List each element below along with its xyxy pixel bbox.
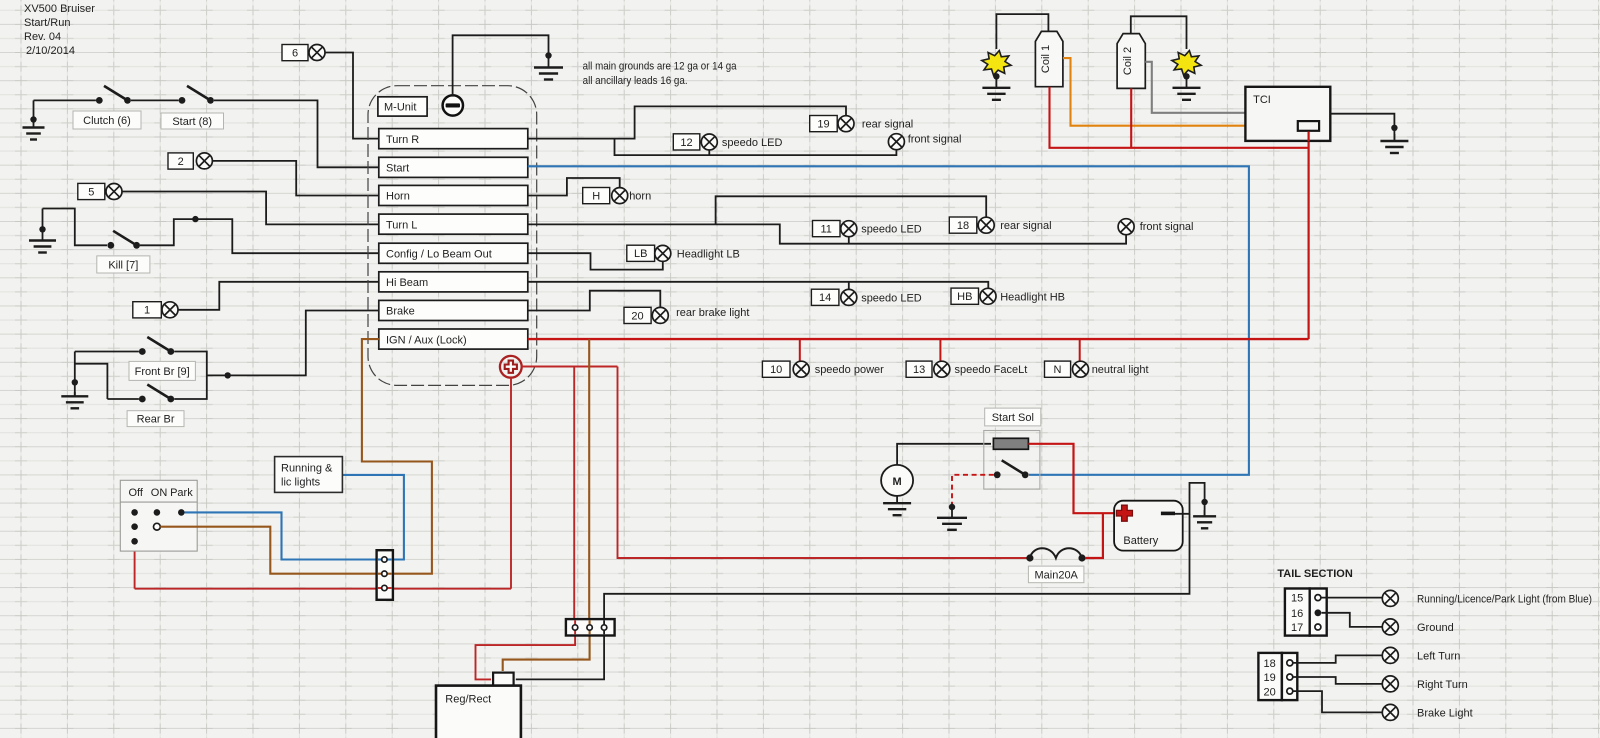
svg-text:speedo LED: speedo LED: [861, 292, 922, 304]
M-Unit row: Brake: [379, 300, 528, 320]
solenoid coil: [993, 438, 1028, 449]
svg-text:horn: horn: [629, 191, 651, 203]
lamp LB (headlight low beam): [655, 245, 671, 261]
lamp 20 (rear brake light): [652, 307, 668, 323]
TCI unit: [1245, 87, 1330, 142]
fuse Main20A: [1026, 548, 1085, 561]
lamp 19 (rear signal): [838, 116, 854, 132]
svg-text:rear brake light: rear brake light: [676, 307, 749, 319]
lamp H (horn): [612, 188, 628, 204]
ignition key switch box (Off / ON / Park): [120, 480, 197, 551]
wire (brown): power bus tap to connector J2 pin 2: [588, 339, 590, 619]
M-Unit header box: [378, 97, 427, 116]
junction: brake wire node: [225, 372, 231, 378]
svg-text:14: 14: [819, 292, 831, 304]
spark plug 2: [1172, 51, 1201, 76]
lamp HB (headlight high beam): [980, 288, 996, 304]
svg-text:all ancillary leads 16 ga.: all ancillary leads 16 ga.: [583, 75, 688, 87]
starter solenoid enclosure: [984, 431, 1040, 490]
ground G7 (battery): [1193, 510, 1216, 528]
svg-text:Start: Start: [386, 163, 409, 175]
svg-text:17: 17: [1291, 622, 1303, 634]
lamp: right turn: [1382, 676, 1398, 692]
ignition switch contact: [131, 538, 138, 545]
indicator lamp 2: [196, 153, 212, 169]
lamp N (neutral light): [1073, 361, 1089, 377]
junction: spark plug 1 ground node: [993, 73, 999, 79]
wire: pin 18 to left turn lamp: [1293, 655, 1382, 663]
indicator lamp 2 box: [168, 153, 193, 169]
wire: M-Unit minus to main ground: [453, 35, 549, 96]
indicator lamp 5: [106, 184, 122, 200]
M-Unit minus terminal: [443, 95, 463, 115]
svg-text:rear signal: rear signal: [862, 119, 913, 131]
lamp: left turn: [1382, 647, 1398, 663]
lamp: front signal (turn L): [1118, 219, 1134, 235]
switch: Kill [7]: [107, 231, 140, 249]
lamp 13 box (speedo FaceLt): [906, 361, 932, 377]
lamp 14 box (speedo LED): [811, 289, 839, 305]
wire (brown): connector J2 pin 2 to Reg/Rect terminal: [503, 636, 590, 672]
coil 1: [1035, 31, 1063, 86]
svg-text:TCI: TCI: [1253, 94, 1271, 106]
ground G8 (spark plug 1): [982, 76, 1010, 100]
svg-text:neutral light: neutral light: [1092, 364, 1149, 376]
indicator lamp 6: [309, 45, 325, 61]
svg-text:Brake: Brake: [386, 306, 415, 318]
wire: starter motor to solenoid coil: [897, 444, 991, 465]
wire: connector J2 pin 3 to Reg/Rect terminal: [516, 636, 604, 680]
wire: brake switches ground riser: [74, 352, 76, 397]
lamp 13 (speedo FaceLt): [934, 361, 950, 377]
svg-text:Brake Light: Brake Light: [1417, 707, 1473, 719]
lamp 18 (rear signal): [978, 217, 994, 233]
connector J1 pin 3: [382, 585, 387, 590]
connector J1 pin 2: [382, 571, 387, 576]
ignition switch contact: [131, 509, 138, 516]
wire: lamp 6 to M-Unit Turn R input: [325, 53, 379, 139]
svg-text:Running &: Running &: [281, 463, 333, 475]
ground G4 (main ground): [534, 63, 563, 80]
svg-text:TAIL SECTION: TAIL SECTION: [1277, 568, 1352, 580]
indicator lamp 5 box: [78, 183, 105, 199]
lamp 11 box (speedo LED): [813, 221, 841, 237]
svg-text:Config / Lo Beam Out: Config / Lo Beam Out: [386, 249, 492, 261]
wire (blue): Start output to starter solenoid switch: [528, 166, 1249, 475]
lamp 10 (speedo power): [793, 361, 809, 377]
svg-text:10: 10: [770, 364, 782, 376]
M-Unit row: Config / Lo Beam Out: [379, 243, 528, 263]
wire: lamp 2 to M-Unit Horn input: [213, 161, 379, 196]
starter motor M: [881, 465, 913, 496]
connector J2 pin 3: [601, 625, 606, 630]
svg-text:Right Turn: Right Turn: [1417, 679, 1468, 691]
wire: brake switches to M-Unit Brake input: [207, 311, 379, 376]
svg-text:Off: Off: [129, 487, 144, 499]
lamp N box (neutral light): [1045, 361, 1071, 377]
svg-text:19: 19: [1264, 672, 1276, 684]
label box: Kill [7]: [97, 256, 150, 273]
svg-text:20: 20: [1264, 686, 1276, 698]
label box: Start (8): [161, 113, 224, 129]
tail connector C2 (pins 18/19/20): [1258, 653, 1297, 700]
svg-text:Turn R: Turn R: [386, 134, 419, 146]
svg-text:Left Turn: Left Turn: [1417, 650, 1460, 662]
lamp 12 (speedo LED): [701, 134, 717, 150]
ignition switch contact: [131, 523, 138, 530]
wire (red): bus riser to TCI tab: [1307, 131, 1309, 339]
M-Unit plus terminal: [500, 356, 522, 378]
svg-text:Running/Licence/Park Light (fr: Running/Licence/Park Light (from Blue): [1417, 593, 1592, 605]
svg-text:1: 1: [144, 305, 150, 317]
wire: rear brake switch left lead: [107, 398, 138, 400]
svg-text:Start Sol: Start Sol: [992, 412, 1034, 424]
connector C1 pin 16 (filled): [1315, 609, 1322, 616]
svg-text:2: 2: [178, 156, 184, 168]
svg-text:Hi Beam: Hi Beam: [386, 277, 428, 289]
svg-text:XV500 Bruiser: XV500 Bruiser: [24, 3, 95, 15]
M-Unit row: Hi Beam: [379, 272, 528, 292]
label box: Start Sol: [985, 408, 1041, 426]
wire: lamp 1 to M-Unit Hi Beam input: [178, 282, 379, 310]
wire: Hi Beam output to headlight HB: [528, 282, 989, 288]
ignition switch contact: [178, 509, 185, 516]
wire: Turn L output to speedo LED 11 / front signal: [528, 224, 1126, 243]
switch: Front Br [9]: [139, 337, 174, 355]
svg-text:speedo LED: speedo LED: [861, 224, 922, 236]
lamp: running/licence/park light: [1382, 590, 1398, 606]
lamp LB box: [627, 245, 655, 261]
svg-text:Front Br [9]: Front Br [9]: [135, 366, 190, 378]
wire (brown): ON contact to connector pin 2: [160, 527, 380, 574]
ground G6 (solenoid trigger): [937, 504, 967, 530]
wire: clutch to start switch: [131, 99, 179, 101]
wire (red): connector J2 pin 1 to Reg/Rect terminal: [476, 636, 576, 680]
svg-text:16: 16: [1291, 608, 1303, 620]
svg-text:Reg/Rect: Reg/Rect: [445, 694, 491, 706]
wire: lamp 5 to M-Unit Turn L input: [122, 192, 379, 225]
label box: Rear Br: [127, 411, 184, 427]
ignition switch contact: [154, 509, 161, 516]
lamp: brake light: [1382, 704, 1398, 720]
svg-text:HB: HB: [957, 291, 972, 303]
svg-text:rear signal: rear signal: [1000, 220, 1051, 232]
ground G5 (starter motor): [883, 496, 911, 515]
junction: kill wire node: [192, 216, 198, 222]
label box: Front Br [9]: [129, 361, 195, 380]
wire (orange): coil 1 trigger to TCI: [1063, 58, 1246, 126]
svg-text:speedo FaceLt: speedo FaceLt: [955, 364, 1028, 376]
ground G9 (spark plug 2): [1173, 76, 1201, 100]
connector C1 pin 17: [1315, 624, 1321, 630]
lamp 10 box (speedo power): [762, 361, 790, 377]
svg-text:M: M: [893, 476, 902, 488]
M-Unit row: Turn L: [379, 214, 528, 234]
connector J1 (3-pin, ignition harness): [377, 550, 393, 600]
wire: coil 1 HT lead to spark plug 1: [996, 14, 1048, 49]
coil 2: [1117, 34, 1145, 89]
wire: pin 20 to brake light lamp: [1293, 691, 1382, 712]
wire: battery negative to ground: [1175, 483, 1205, 516]
connector J1 pin 1: [382, 557, 387, 562]
wire: Config/Lo Beam output to headlight LB: [528, 253, 663, 269]
ignition switch contact (ON row 2, open): [154, 523, 161, 530]
wire (red): + feed down to main fuse: [618, 367, 1027, 559]
wire: Horn output to horn lamp: [528, 178, 620, 196]
wire: pin 19 to right turn lamp: [1293, 677, 1382, 684]
connector C2 pin 19: [1287, 674, 1293, 680]
wire (red): + feed to Reg/Rect connector pin 1: [573, 367, 575, 620]
svg-text:19: 19: [817, 119, 829, 131]
wire (red): key switch Off column drop: [134, 541, 136, 588]
wire: Turn R to rear signal 19: [528, 106, 846, 138]
connector J2 pin 1: [572, 625, 577, 630]
connector J2 pin 2: [587, 625, 592, 630]
wire: coil 2 HT lead to spark plug 2: [1131, 16, 1187, 49]
label box: Main20A: [1028, 566, 1084, 583]
wire: connector J2 pin 3 to battery negative bus: [604, 514, 1189, 619]
tail connector C1 (pins 15/16/17): [1285, 589, 1327, 636]
svg-text:2/10/2014: 2/10/2014: [26, 45, 75, 57]
svg-text:Rev. 04: Rev. 04: [24, 31, 61, 43]
svg-text:20: 20: [631, 310, 643, 322]
lamp 20 box (rear brake light): [624, 307, 651, 323]
svg-text:18: 18: [1264, 658, 1276, 670]
lamp 18 box (rear signal): [949, 217, 977, 233]
M-Unit row: Turn R: [379, 129, 528, 149]
svg-text:lic lights: lic lights: [281, 477, 321, 489]
battery negative terminal (-): [1161, 512, 1175, 516]
svg-text:Coil 1: Coil 1: [1040, 45, 1052, 73]
svg-text:11: 11: [820, 224, 831, 236]
wire (red): IGN/Aux main power bus: [528, 338, 1309, 340]
lamp 19 box (rear signal): [810, 116, 838, 132]
wire: start switch to M-Unit Start input: [214, 100, 379, 167]
svg-text:Battery: Battery: [1123, 535, 1158, 547]
wire (red dashed): solenoid trigger to ground: [952, 475, 994, 504]
wire (blue): connector pin 1 to running lights: [342, 475, 404, 560]
label box: Running & lic lights: [275, 457, 343, 493]
wire (red): stub to lamp N neutral light: [1079, 339, 1081, 361]
svg-text:Start/Run: Start/Run: [24, 17, 70, 29]
wire: stub to lamp 11: [848, 237, 850, 244]
wire: ground to kill switch: [43, 209, 108, 246]
wire (brown): connector pin 2 to M-Unit IGN/Aux input: [362, 339, 432, 574]
lamp 14 (speedo LED): [841, 289, 857, 305]
spark plug 1: [982, 51, 1011, 76]
lamp: ground: [1382, 619, 1398, 635]
lamp 12 box (speedo LED): [673, 134, 700, 150]
svg-text:LB: LB: [634, 248, 647, 260]
svg-text:13: 13: [913, 364, 925, 376]
wire: TCI to ground: [1330, 114, 1394, 141]
wire: stub to lamp 14: [848, 282, 850, 290]
svg-text:15: 15: [1291, 593, 1303, 605]
svg-text:Turn L: Turn L: [386, 219, 417, 231]
M-Unit row: Horn: [379, 185, 528, 205]
svg-text:speedo LED: speedo LED: [722, 137, 783, 149]
wire: ground riser to front brake switch: [75, 351, 139, 353]
svg-text:Clutch (6): Clutch (6): [83, 115, 131, 127]
lamp 11 (speedo LED): [841, 221, 857, 237]
svg-text:front signal: front signal: [908, 134, 962, 146]
svg-text:IGN / Aux (Lock): IGN / Aux (Lock): [386, 334, 467, 346]
ground G10 (TCI): [1380, 134, 1408, 153]
Reg/Rect unit: [436, 673, 521, 738]
ground G2 (kill switch): [29, 209, 56, 253]
svg-text:Headlight HB: Headlight HB: [1000, 291, 1065, 303]
svg-text:all main grounds are 12 ga or: all main grounds are 12 ga or 14 ga: [583, 61, 738, 73]
wire: stub to lamp 12: [708, 150, 710, 155]
svg-text:speedo power: speedo power: [815, 364, 884, 376]
wire (red): stub to lamp 10 speedo power: [799, 339, 801, 361]
connector C2 pin 20: [1287, 688, 1293, 694]
wire (red): stub to lamp 13 speedo FaceLt: [939, 339, 941, 361]
connector C1 pin 15: [1315, 595, 1321, 601]
svg-text:12: 12: [680, 137, 692, 149]
M-Unit row: Start: [379, 157, 528, 177]
switch: Clutch (6): [96, 86, 131, 104]
indicator lamp 1: [162, 302, 178, 318]
svg-text:N: N: [1054, 364, 1062, 376]
connector C2 pin 18: [1287, 660, 1293, 666]
wire (red): coil 2 power feed: [1130, 88, 1132, 147]
M-Unit enclosure: [368, 86, 537, 386]
wire (red): M-Unit + feed header: [522, 366, 618, 368]
connector J2 (3-pin, Reg/Rect): [566, 619, 615, 635]
svg-text:Headlight LB: Headlight LB: [677, 248, 740, 260]
label box: Clutch (6): [73, 111, 141, 129]
wire: kill switch to M-Unit Config input: [140, 219, 379, 253]
lamp HB box: [951, 288, 979, 304]
wire (gray): coil 2 trigger to TCI: [1145, 62, 1245, 113]
wire: Turn L branch to rear signal 18: [716, 196, 987, 224]
svg-text:18: 18: [957, 220, 969, 232]
svg-text:Rear Br: Rear Br: [137, 414, 175, 426]
lamp H box (horn): [583, 188, 610, 204]
ground G3 (brake switches): [61, 392, 88, 408]
svg-text:Park: Park: [170, 487, 193, 499]
indicator lamp 1 box: [133, 302, 162, 318]
svg-text:Main20A: Main20A: [1034, 569, 1078, 581]
svg-text:Ground: Ground: [1417, 622, 1454, 634]
svg-text:ON: ON: [151, 487, 168, 499]
switch: Start (8): [179, 86, 214, 104]
wire: pin 15 to running/licence/park light: [1322, 597, 1383, 599]
wire (red): M-Unit + to key switch riser: [510, 378, 512, 589]
svg-text:6: 6: [292, 48, 298, 60]
svg-text:Coil 2: Coil 2: [1122, 47, 1134, 75]
wire: rear brake to ground riser: [75, 364, 108, 399]
svg-text:Start (8): Start (8): [172, 116, 212, 128]
wire (red): coil 1 power feed: [1050, 87, 1309, 148]
svg-text:Horn: Horn: [386, 191, 410, 203]
wire (red): solenoid output to battery positive: [1028, 444, 1115, 513]
wire: Brake output to rear brake light: [528, 291, 661, 311]
wire: pin 16 to ground lamp: [1322, 613, 1383, 627]
ground G1 (clutch/start): [23, 100, 45, 139]
wire: Turn R branch to speedo LED 12 and front signal: [615, 139, 897, 156]
battery: [1114, 501, 1183, 551]
switch: Rear Br: [139, 385, 174, 403]
svg-text:5: 5: [88, 186, 94, 198]
svg-text:Kill [7]: Kill [7]: [108, 259, 138, 271]
junction: spark plug 2 ground node: [1183, 73, 1189, 79]
wire: ground to clutch switch: [34, 99, 96, 101]
switch: solenoid contact: [994, 460, 1029, 478]
M-Unit row: IGN / Aux (Lock): [379, 329, 528, 349]
wire (red): key switch feed bus: [135, 588, 511, 590]
battery positive terminal (+): [1116, 505, 1132, 521]
wire (blue): Park contact to connector pin 1: [185, 512, 381, 559]
indicator lamp 6 box: [282, 45, 308, 61]
wire (red): fuse to battery positive junction: [1086, 514, 1103, 558]
svg-text:H: H: [592, 191, 600, 203]
svg-text:M-Unit: M-Unit: [384, 102, 416, 114]
lamp: front signal (turn R): [888, 134, 904, 150]
svg-text:front signal: front signal: [1140, 221, 1194, 233]
wire: brake switches output tie: [174, 352, 207, 400]
